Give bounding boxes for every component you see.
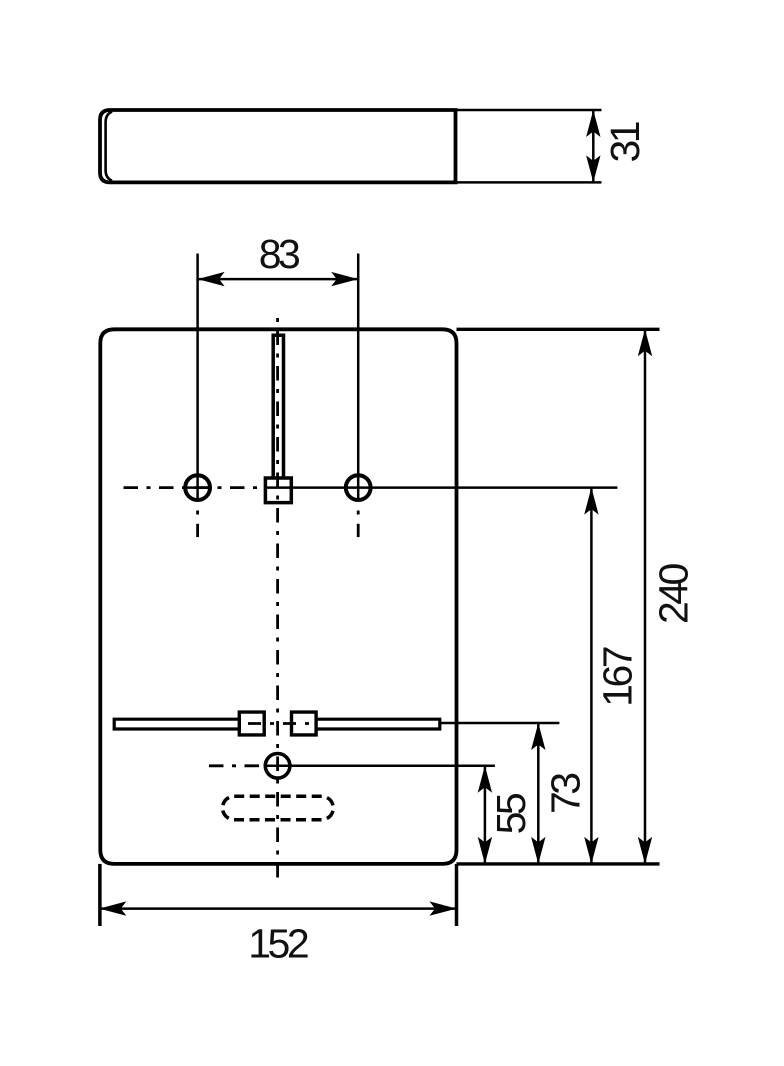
dim 55 arrow up xyxy=(478,766,492,793)
extension line 167 through right hole xyxy=(267,486,617,489)
dim 152 arrow left xyxy=(99,901,126,915)
hole left circle xyxy=(185,475,210,500)
keyhole square xyxy=(265,478,291,503)
dim 73 arrow up xyxy=(531,723,545,750)
extension line top right xyxy=(457,328,660,331)
dim 83 arrow left xyxy=(198,272,225,286)
small hole centerline left xyxy=(209,764,265,767)
extension line bottom right xyxy=(457,862,660,865)
main plate outline xyxy=(100,329,456,864)
dim 31 extension line top xyxy=(456,109,602,112)
dim 31 arrow down xyxy=(586,155,600,182)
dashed knockout obround xyxy=(223,796,334,819)
hole left crosshair bar xyxy=(186,486,210,489)
side view face line xyxy=(106,112,112,181)
small hole circle xyxy=(265,754,290,779)
dim 240 arrow down xyxy=(638,837,652,864)
dim 31 line xyxy=(592,111,595,181)
cable slot right square xyxy=(292,712,317,735)
dim 55 line xyxy=(484,767,487,863)
side view outline xyxy=(100,110,456,182)
dim 240 line xyxy=(644,330,647,863)
dim 31 extension line bottom xyxy=(456,181,602,184)
dim 73 arrow down xyxy=(531,837,545,864)
svg-text:83: 83 xyxy=(259,231,299,277)
dim 73 line xyxy=(537,724,540,863)
hole right circle xyxy=(346,475,371,500)
horizontal centerline left of keyhole xyxy=(124,486,267,489)
dim 167 arrow up xyxy=(584,488,598,515)
centerline mark below left hole xyxy=(196,511,199,515)
dim 167 arrow down xyxy=(584,837,598,864)
extension line 55 through small hole xyxy=(266,765,495,768)
keyhole slot xyxy=(273,335,283,478)
svg-text:240: 240 xyxy=(651,563,697,624)
dim 83 extension line left xyxy=(196,254,199,502)
dim 152 arrow right xyxy=(430,901,457,915)
dim 152 line xyxy=(100,907,455,910)
dim 152 extension line left xyxy=(98,864,102,926)
svg-text:152: 152 xyxy=(248,921,308,967)
svg-text:73: 73 xyxy=(543,774,589,814)
svg-text:31: 31 xyxy=(602,122,648,162)
extension line 73 xyxy=(440,722,560,725)
dim 240 arrow up xyxy=(638,329,652,356)
dim 167 line xyxy=(590,489,593,863)
cable slot right strip xyxy=(316,719,440,729)
svg-text:55: 55 xyxy=(488,793,534,834)
dim 83 arrow right xyxy=(331,272,358,286)
vertical centerline xyxy=(276,318,279,880)
dim 55 arrow down xyxy=(478,837,492,864)
cable slot centerline xyxy=(248,722,313,725)
cable slot left strip xyxy=(114,719,239,729)
centerline mark below right hole xyxy=(357,511,360,515)
dim 83 line xyxy=(199,278,358,281)
dim 152 extension line right xyxy=(455,864,459,926)
dim 83 extension line right xyxy=(357,254,360,502)
dim 31 arrow up xyxy=(586,110,600,137)
svg-text:167: 167 xyxy=(594,647,640,707)
cable slot left square xyxy=(239,712,264,735)
